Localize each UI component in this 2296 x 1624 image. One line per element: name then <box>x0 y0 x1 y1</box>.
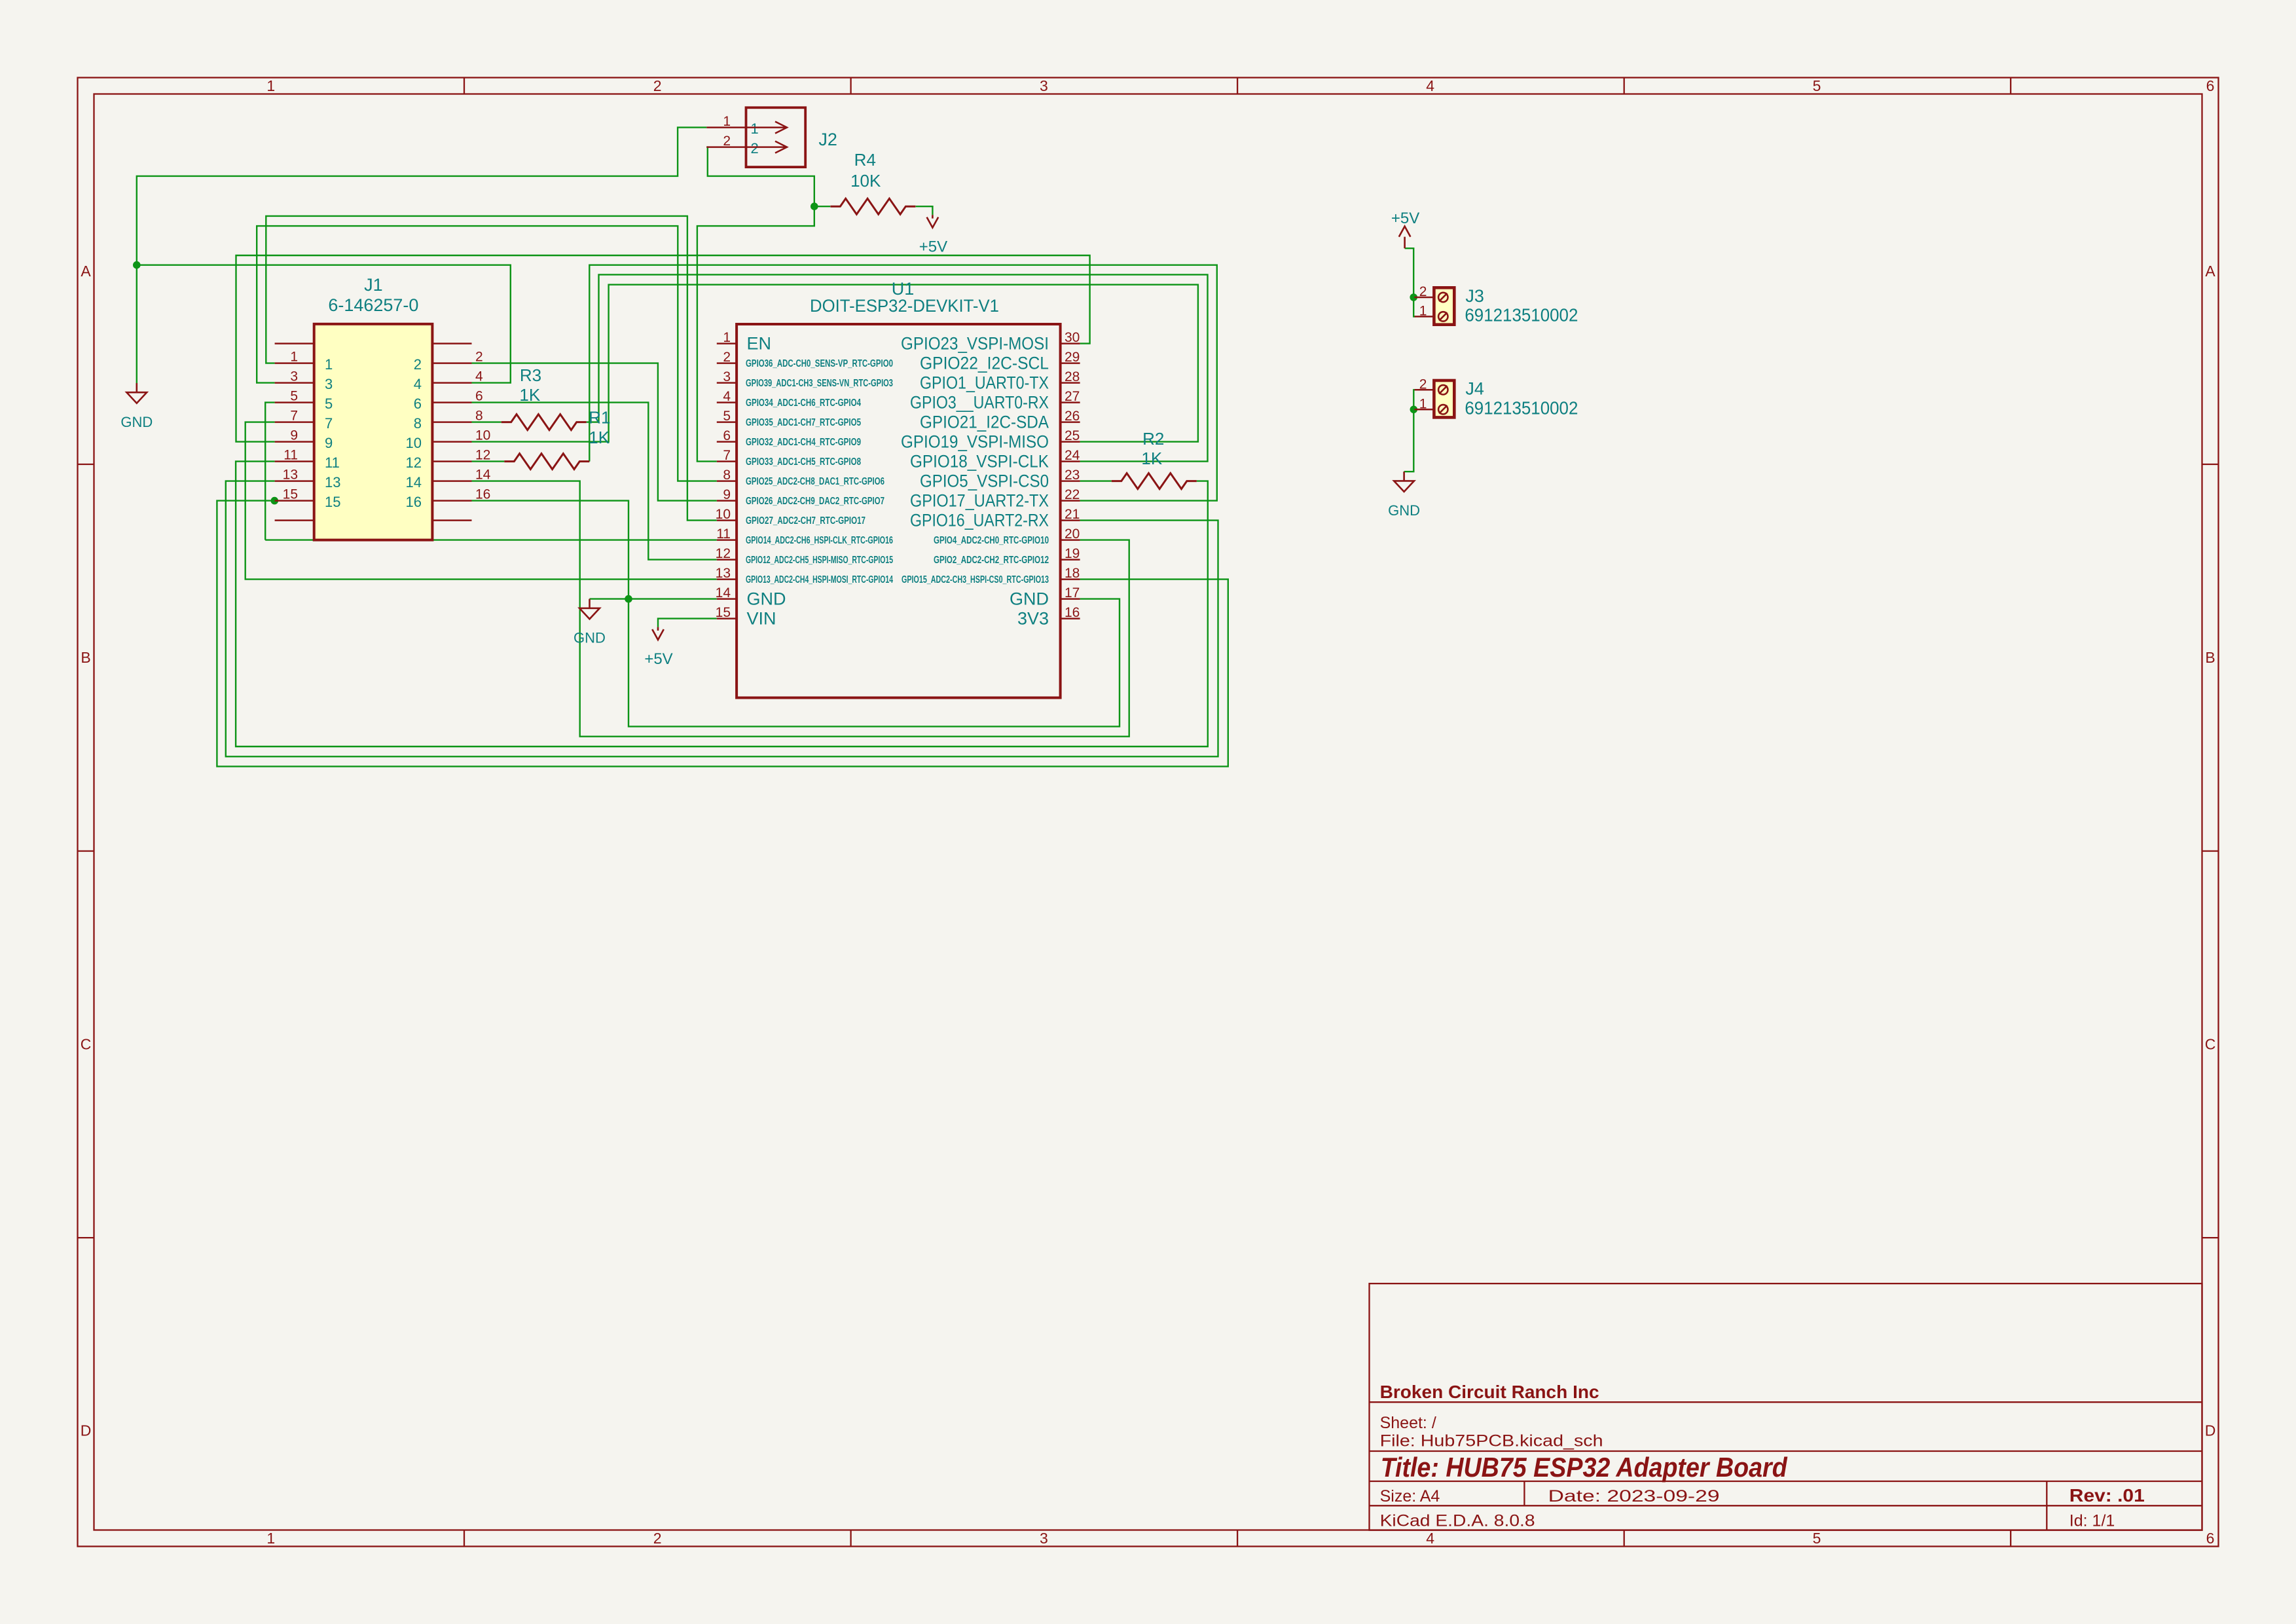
svg-text:GPIO12_ADC2-CH5_HSPI-MISO_RTC-: GPIO12_ADC2-CH5_HSPI-MISO_RTC-GPIO15 <box>746 555 893 566</box>
U1 pin 14 <box>717 598 737 600</box>
U1 pin 4 <box>717 401 737 403</box>
svg-text:1: 1 <box>1419 396 1427 411</box>
svg-text:691213510002: 691213510002 <box>1465 397 1578 418</box>
svg-text:GND: GND <box>1388 502 1420 519</box>
ground symbol left (J2 net) <box>136 383 138 392</box>
svg-text:GPIO32_ADC1-CH4_RTC-GPIO9: GPIO32_ADC1-CH4_RTC-GPIO9 <box>746 437 861 448</box>
U1 pin 9 <box>717 500 737 502</box>
wire R4 junction to U1 pin7 <box>697 206 814 461</box>
svg-text:Size: A4: Size: A4 <box>1380 1487 1440 1505</box>
svg-text:GPIO34_ADC1-CH6_RTC-GPIO4: GPIO34_ADC1-CH6_RTC-GPIO4 <box>746 397 861 409</box>
svg-text:10: 10 <box>716 507 731 522</box>
svg-text:GND: GND <box>574 630 606 646</box>
svg-text:C: C <box>2205 1035 2216 1052</box>
svg-text:GPIO39_ADC1-CH3_SENS-VN_RTC-GP: GPIO39_ADC1-CH3_SENS-VN_RTC-GPIO3 <box>746 378 893 389</box>
svg-text:13: 13 <box>716 566 731 581</box>
wire R4 left lead <box>814 206 830 207</box>
svg-text:3: 3 <box>1040 77 1048 94</box>
svg-text:4: 4 <box>1426 77 1434 94</box>
J1 pin 5 <box>275 401 314 403</box>
svg-text:21: 21 <box>1065 507 1080 522</box>
svg-text:18: 18 <box>1065 566 1080 581</box>
U1 pin 10 <box>717 519 737 521</box>
svg-text:GND: GND <box>747 589 786 609</box>
J1 pin 1 <box>275 362 314 364</box>
wire J1 pin1 to U1 pin10 <box>266 216 717 521</box>
svg-text:GND: GND <box>1010 589 1049 609</box>
node J4 junction dot <box>1410 406 1418 414</box>
svg-text:1: 1 <box>266 77 275 94</box>
svg-text:GPIO26_ADC2-CH9_DAC2_RTC-GPIO7: GPIO26_ADC2-CH9_DAC2_RTC-GPIO7 <box>746 496 884 507</box>
svg-text:1: 1 <box>1419 303 1427 318</box>
J1 bottom-right mounting stub <box>432 519 471 521</box>
svg-text:File: Hub75PCB.kicad_sch: File: Hub75PCB.kicad_sch <box>1380 1432 1603 1450</box>
svg-text:4: 4 <box>414 376 422 392</box>
IC U1 body <box>737 324 1061 698</box>
svg-text:4: 4 <box>723 389 731 404</box>
svg-text:J3: J3 <box>1465 286 1484 306</box>
svg-text:GPIO21_I2C-SDA: GPIO21_I2C-SDA <box>920 413 1049 432</box>
svg-text:2: 2 <box>723 134 731 149</box>
svg-text:3: 3 <box>290 369 298 384</box>
svg-text:+5V: +5V <box>644 650 672 668</box>
J4 pin 2 <box>1415 389 1434 391</box>
U1 pin 24 <box>1061 460 1080 462</box>
U1 pin 25 <box>1061 441 1080 443</box>
wire row 824 to U1 pin11 (passes under J1 box) <box>265 539 717 540</box>
wire U1 pin14 to GND symbol <box>590 598 717 599</box>
svg-text:5: 5 <box>1813 77 1821 94</box>
svg-text:R4: R4 <box>854 150 876 170</box>
U1 pin 30 <box>1061 342 1080 344</box>
U1 pin 12 <box>717 559 737 561</box>
svg-text:20: 20 <box>1065 526 1080 542</box>
svg-text:Id: 1/1: Id: 1/1 <box>2069 1512 2115 1530</box>
svg-text:5: 5 <box>723 409 731 424</box>
svg-text:26: 26 <box>1065 409 1080 424</box>
svg-text:GPIO22_I2C-SCL: GPIO22_I2C-SCL <box>920 354 1049 373</box>
svg-text:GPIO35_ADC1-CH7_RTC-GPIO5: GPIO35_ADC1-CH7_RTC-GPIO5 <box>746 417 861 428</box>
svg-text:1: 1 <box>751 120 759 137</box>
J1 pin 15 <box>275 500 314 502</box>
wire J1 pin13 to U1 pin21 <box>226 481 1218 757</box>
wire J1 pin14 to U1 pin20 <box>472 481 1129 737</box>
svg-text:GPIO1_UART0-TX: GPIO1_UART0-TX <box>920 373 1049 393</box>
svg-text:16: 16 <box>475 487 490 502</box>
svg-text:R2: R2 <box>1142 429 1164 449</box>
svg-text:J2: J2 <box>818 130 837 149</box>
svg-text:2: 2 <box>1419 377 1427 392</box>
svg-text:5: 5 <box>325 396 333 412</box>
svg-text:28: 28 <box>1065 369 1080 384</box>
node R4 junction dot <box>811 202 818 210</box>
svg-text:6: 6 <box>723 428 731 443</box>
svg-text:6: 6 <box>414 396 422 412</box>
svg-text:1: 1 <box>290 350 298 365</box>
svg-text:12: 12 <box>716 546 731 561</box>
U1 pin 27 <box>1061 401 1080 403</box>
wire J3 pin2 branch <box>1413 297 1415 298</box>
svg-text:C: C <box>81 1035 92 1052</box>
svg-text:DOIT-ESP32-DEVKIT-V1: DOIT-ESP32-DEVKIT-V1 <box>810 296 999 316</box>
wire J4 pin1 branch <box>1413 409 1415 410</box>
svg-text:1: 1 <box>266 1530 275 1547</box>
wire J1 pin15 to U1 pin18 <box>217 501 1228 767</box>
wire J2 pin1 to GND net down left <box>137 128 707 383</box>
svg-text:27: 27 <box>1065 389 1080 404</box>
svg-text:VIN: VIN <box>747 609 776 629</box>
+5V symbol at R4 (pointing down) <box>932 206 933 215</box>
svg-text:3V3: 3V3 <box>1017 609 1049 629</box>
svg-text:1K: 1K <box>1141 449 1162 468</box>
U1 pin 19 <box>1061 559 1080 561</box>
svg-text:11: 11 <box>283 448 298 463</box>
svg-text:GPIO2_ADC2-CH2_RTC-GPIO12: GPIO2_ADC2-CH2_RTC-GPIO12 <box>934 555 1049 566</box>
wire R1 right to U1 pin22 <box>589 265 1217 501</box>
wire J1 pin3 to U1 pin8 <box>257 226 717 481</box>
svg-text:Title: HUB75 ESP32 Adapter Boa: Title: HUB75 ESP32 Adapter Board <box>1381 1452 1788 1483</box>
svg-text:15: 15 <box>325 494 340 510</box>
svg-text:14: 14 <box>406 474 422 490</box>
U1 pin 8 <box>717 480 737 482</box>
svg-text:14: 14 <box>475 468 491 483</box>
svg-text:14: 14 <box>716 585 731 600</box>
svg-text:1: 1 <box>723 330 731 345</box>
J1 pin 10 <box>432 441 471 443</box>
svg-text:2: 2 <box>751 140 759 157</box>
svg-text:+5V: +5V <box>919 238 947 256</box>
svg-text:12: 12 <box>475 448 490 463</box>
svg-text:B: B <box>81 649 90 666</box>
svg-text:GPIO18_VSPI-CLK: GPIO18_VSPI-CLK <box>910 452 1049 471</box>
svg-text:4: 4 <box>1426 1530 1434 1547</box>
svg-text:+5V: +5V <box>1391 210 1419 227</box>
J3 pin 2 <box>1415 297 1434 299</box>
node GND junction at U1 pin14 <box>625 595 632 603</box>
U1 pin 23 <box>1061 480 1080 482</box>
svg-text:22: 22 <box>1065 487 1080 502</box>
svg-text:1K: 1K <box>589 428 610 447</box>
svg-text:8: 8 <box>723 468 731 483</box>
wire J4 pins to GND <box>1404 390 1415 471</box>
svg-text:16: 16 <box>406 494 422 510</box>
+5V symbol at J3 (pointing up) <box>1404 237 1406 249</box>
svg-text:7: 7 <box>723 448 731 463</box>
svg-text:29: 29 <box>1065 350 1080 365</box>
wire J2 pin2 to R4 <box>706 147 814 207</box>
connector J1 body <box>314 324 433 540</box>
svg-text:19: 19 <box>1065 546 1080 561</box>
title block <box>1370 1283 2202 1530</box>
connector J2 body <box>746 107 806 167</box>
J1 pin 9 <box>275 441 314 443</box>
connector J3 body <box>1434 287 1454 324</box>
J1 pin 6 <box>432 401 471 403</box>
svg-text:Date: 2023-09-29: Date: 2023-09-29 <box>1548 1487 1720 1505</box>
svg-text:16: 16 <box>1065 605 1080 620</box>
wire U1 pin23 to R2 left <box>1080 480 1112 481</box>
resistor R2 <box>1112 473 1197 489</box>
svg-text:691213510002: 691213510002 <box>1465 304 1578 325</box>
svg-text:GPIO3__UART0-RX: GPIO3__UART0-RX <box>910 393 1049 413</box>
wire J1 pin8 to R3 left <box>472 421 501 422</box>
wire J1 pin5 down to row wire <box>265 403 274 540</box>
J1 pin 3 <box>275 382 314 384</box>
svg-text:3: 3 <box>325 376 333 392</box>
J1 top-right mounting stub <box>432 342 471 344</box>
svg-text:6: 6 <box>475 389 483 404</box>
U1 pin 18 <box>1061 578 1080 580</box>
resistor R1 <box>504 454 589 470</box>
J1 pin 12 <box>432 460 471 462</box>
svg-text:9: 9 <box>290 428 298 443</box>
U1 pin 17 <box>1061 598 1080 600</box>
svg-text:6-146257-0: 6-146257-0 <box>328 295 418 315</box>
svg-text:GPIO16_UART2-RX: GPIO16_UART2-RX <box>910 511 1049 530</box>
svg-text:5: 5 <box>1813 1530 1821 1547</box>
svg-text:7: 7 <box>290 409 298 424</box>
J1 pin 14 <box>432 480 471 482</box>
J1 pin 8 <box>432 421 471 423</box>
svg-text:11: 11 <box>716 526 731 542</box>
svg-text:J4: J4 <box>1465 378 1484 398</box>
svg-text:7: 7 <box>325 415 333 432</box>
svg-text:GPIO17_UART2-TX: GPIO17_UART2-TX <box>910 491 1049 511</box>
wire J1 pin11 to R2 right <box>236 462 1208 747</box>
svg-text:9: 9 <box>325 435 333 451</box>
node GND junction dot <box>133 261 141 269</box>
U1 pin 7 <box>717 460 737 462</box>
U1 pin 11 <box>717 539 737 541</box>
J2 pin 1 <box>706 126 746 128</box>
wire J1 pin2 to U1 pin9 <box>472 363 717 501</box>
svg-text:D: D <box>2205 1422 2216 1439</box>
svg-text:GPIO15_ADC2-CH3_HSPI-CS0_RTC-G: GPIO15_ADC2-CH3_HSPI-CS0_RTC-GPIO13 <box>902 574 1049 585</box>
wire R4 right lead to +5V <box>916 206 933 208</box>
svg-text:Broken Circuit Ranch Inc: Broken Circuit Ranch Inc <box>1380 1382 1599 1402</box>
U1 pin 6 <box>717 441 737 443</box>
svg-text:15: 15 <box>716 605 731 620</box>
svg-text:2: 2 <box>653 77 662 94</box>
svg-text:GPIO36_ADC-CH0_SENS-VP_RTC-GPI: GPIO36_ADC-CH0_SENS-VP_RTC-GPIO0 <box>746 358 893 369</box>
J1 pin 13 <box>275 480 314 482</box>
svg-text:6: 6 <box>2206 77 2215 94</box>
svg-text:25: 25 <box>1065 428 1080 443</box>
svg-text:13: 13 <box>283 468 298 483</box>
U1 pin 29 <box>1061 362 1080 364</box>
svg-text:Sheet: /: Sheet: / <box>1380 1414 1436 1432</box>
svg-text:1: 1 <box>325 356 333 373</box>
J1 bottom-left mounting stub <box>275 519 314 521</box>
svg-text:24: 24 <box>1065 448 1080 463</box>
U1 pin 2 <box>717 362 737 364</box>
U1 pin 26 <box>1061 421 1080 423</box>
J1 pin 4 <box>432 382 471 384</box>
svg-text:17: 17 <box>1065 585 1080 600</box>
svg-text:10: 10 <box>475 428 490 443</box>
svg-text:8: 8 <box>414 415 422 432</box>
svg-text:30: 30 <box>1065 330 1080 345</box>
svg-text:23: 23 <box>1065 468 1080 483</box>
svg-text:GND: GND <box>120 414 153 430</box>
U1 pin 5 <box>717 421 737 423</box>
U1 pin 20 <box>1061 539 1080 541</box>
svg-text:A: A <box>81 263 91 280</box>
U1 pin 3 <box>717 382 737 384</box>
svg-text:GPIO25_ADC2-CH8_DAC1_RTC-GPIO6: GPIO25_ADC2-CH8_DAC1_RTC-GPIO6 <box>746 476 884 487</box>
J1 pin 7 <box>275 421 314 423</box>
U1 pin 15 <box>717 618 737 619</box>
svg-text:13: 13 <box>325 474 340 490</box>
svg-text:12: 12 <box>406 454 422 471</box>
svg-text:10K: 10K <box>850 171 881 191</box>
J2 pin 2 <box>706 146 746 148</box>
svg-text:GPIO5_VSPI-CS0: GPIO5_VSPI-CS0 <box>920 471 1049 491</box>
svg-text:3: 3 <box>723 369 731 384</box>
ground symbol at U1 pin14 <box>589 599 591 608</box>
wire J1 pin10 to U1 pin25 <box>472 285 1198 442</box>
node J3 junction dot <box>1410 293 1417 301</box>
svg-text:8: 8 <box>475 409 483 424</box>
svg-text:4: 4 <box>475 369 483 384</box>
svg-text:3: 3 <box>1040 1530 1048 1547</box>
svg-text:Rev: .01: Rev: .01 <box>2069 1485 2145 1505</box>
svg-text:D: D <box>81 1422 92 1439</box>
wire J1 pin6 to U1 pin12 <box>472 403 717 560</box>
svg-text:10: 10 <box>406 435 422 451</box>
svg-text:1: 1 <box>723 114 731 129</box>
svg-text:A: A <box>2205 263 2215 280</box>
svg-text:R3: R3 <box>520 365 541 385</box>
wire +5V to J3 <box>1405 248 1415 316</box>
U1 pin 22 <box>1061 500 1080 502</box>
J1 top-left mounting stub <box>275 342 314 344</box>
U1 pin 28 <box>1061 382 1080 384</box>
wire J1 pin7 to U1 pin13 <box>246 422 717 580</box>
svg-text:9: 9 <box>723 487 731 502</box>
U1 pin 1 <box>717 342 737 344</box>
svg-text:GPIO23_VSPI-MOSI: GPIO23_VSPI-MOSI <box>901 334 1049 354</box>
frame column ticks top/bottom <box>464 78 465 94</box>
U1 pin 16 <box>1061 618 1080 619</box>
svg-text:EN: EN <box>747 334 772 354</box>
svg-text:1K: 1K <box>519 385 540 405</box>
node J1 pin15 junction dot <box>271 497 279 505</box>
svg-text:KiCad E.D.A. 8.0.8: KiCad E.D.A. 8.0.8 <box>1380 1512 1535 1530</box>
svg-text:J1: J1 <box>364 275 383 295</box>
U1 pin 21 <box>1061 519 1080 521</box>
svg-text:2: 2 <box>475 350 483 365</box>
svg-text:2: 2 <box>723 350 731 365</box>
svg-text:11: 11 <box>325 454 340 471</box>
svg-text:5: 5 <box>290 389 298 404</box>
J3 pin 1 <box>1415 316 1434 318</box>
svg-text:GPIO33_ADC1-CH5_RTC-GPIO8: GPIO33_ADC1-CH5_RTC-GPIO8 <box>746 456 861 468</box>
resistor R4 <box>830 198 915 214</box>
U1 pin 13 <box>717 578 737 580</box>
wire R3 right to U1 pin24 <box>587 274 1208 461</box>
J4 pin 1 <box>1415 409 1434 411</box>
wire U1 VIN to +5V symbol <box>658 618 717 619</box>
svg-text:15: 15 <box>283 487 298 502</box>
svg-text:GPIO13_ADC2-CH4_HSPI-MOSI_RTC-: GPIO13_ADC2-CH4_HSPI-MOSI_RTC-GPIO14 <box>746 574 893 585</box>
svg-text:GPIO27_ADC2-CH7_RTC-GPIO17: GPIO27_ADC2-CH7_RTC-GPIO17 <box>746 515 866 526</box>
svg-text:GPIO19_VSPI-MISO: GPIO19_VSPI-MISO <box>901 432 1049 452</box>
wire J1 pin12 to R1 left <box>472 460 505 462</box>
J1 pin 11 <box>275 460 314 462</box>
frame row ticks left/right <box>78 464 94 465</box>
svg-text:2: 2 <box>414 356 422 373</box>
J1 pin 16 <box>432 500 471 502</box>
svg-text:GPIO14_ADC2-CH6_HSPI-CLK_RTC-G: GPIO14_ADC2-CH6_HSPI-CLK_RTC-GPIO16 <box>746 535 893 546</box>
svg-text:R1: R1 <box>589 408 610 428</box>
svg-text:2: 2 <box>1419 284 1427 299</box>
wire J1 pin9 to U1 pin30 <box>236 255 1090 442</box>
svg-text:GPIO4_ADC2-CH0_RTC-GPIO10: GPIO4_ADC2-CH0_RTC-GPIO10 <box>934 535 1049 546</box>
svg-text:6: 6 <box>2206 1530 2215 1547</box>
ground symbol at J4 <box>1403 471 1405 481</box>
J1 pin 2 <box>432 362 471 364</box>
svg-text:B: B <box>2205 649 2215 666</box>
wire J1 pin16 GND loop to U1 pin17 <box>472 501 1120 727</box>
wire GND junction to J1 pin4 <box>137 265 511 383</box>
+5V symbol at U1 VIN (pointing down) <box>657 619 659 627</box>
svg-text:2: 2 <box>653 1530 662 1547</box>
resistor R3 <box>501 415 587 430</box>
connector J4 body <box>1434 380 1454 417</box>
